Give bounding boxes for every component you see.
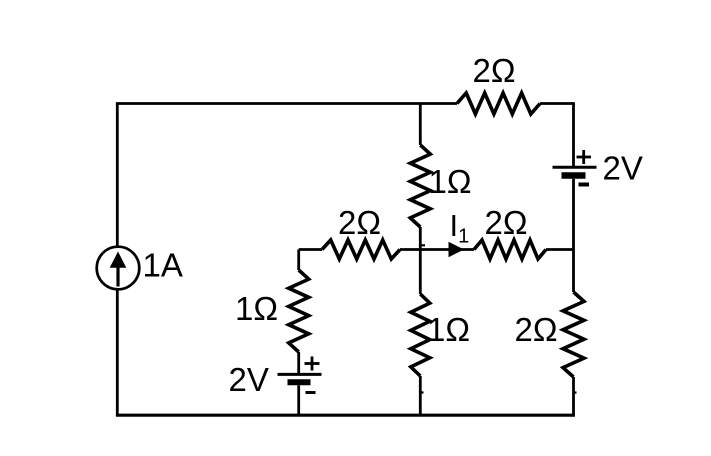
svg-text:2Ω: 2Ω bbox=[473, 52, 516, 89]
svg-text:2V: 2V bbox=[603, 150, 643, 187]
svg-text:1A: 1A bbox=[143, 247, 183, 284]
svg-text:2Ω: 2Ω bbox=[485, 204, 528, 241]
svg-text:2Ω: 2Ω bbox=[338, 204, 381, 241]
svg-text:1Ω: 1Ω bbox=[427, 311, 470, 348]
svg-text:1Ω: 1Ω bbox=[235, 290, 278, 327]
svg-text:2V: 2V bbox=[229, 361, 269, 398]
svg-text:2Ω: 2Ω bbox=[515, 311, 558, 348]
svg-text:1Ω: 1Ω bbox=[429, 163, 472, 200]
